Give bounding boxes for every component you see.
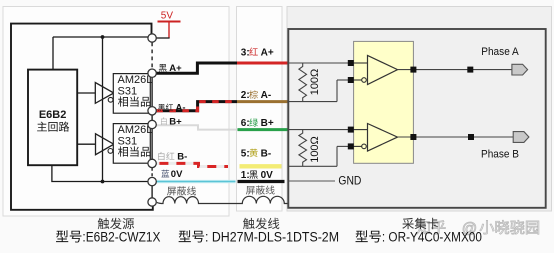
svg-text:0V: 0V [261, 170, 274, 181]
svg-text:100Ω: 100Ω [309, 136, 321, 163]
svg-text:3:: 3: [241, 47, 250, 58]
svg-text:B+: B+ [169, 116, 182, 127]
svg-text:: OR-Y4C0-XMX00: : OR-Y4C0-XMX00 [382, 230, 482, 245]
svg-text:B-: B- [177, 152, 187, 163]
svg-text:A-: A- [176, 102, 186, 113]
svg-text::E6B2-CWZ1X: :E6B2-CWZ1X [82, 230, 160, 245]
svg-text:B-: B- [261, 148, 272, 159]
svg-text:100Ω: 100Ω [309, 69, 321, 96]
svg-text:S31: S31 [118, 135, 138, 147]
svg-text:: DH27M-DLS-1DTS-2M: : DH27M-DLS-1DTS-2M [205, 230, 339, 245]
svg-text:Phase B: Phase B [481, 148, 519, 160]
svg-text:5V: 5V [161, 11, 174, 22]
svg-text:1:: 1: [241, 170, 250, 181]
svg-text:E6B2: E6B2 [39, 109, 67, 121]
svg-text:A+: A+ [261, 47, 274, 58]
svg-text:0V: 0V [171, 169, 183, 180]
svg-text:AM26L: AM26L [118, 124, 153, 136]
svg-text:AM26L: AM26L [118, 74, 153, 86]
svg-text:2:: 2: [241, 90, 250, 101]
svg-text:5:: 5: [241, 148, 250, 159]
svg-text:6:: 6: [241, 118, 250, 129]
svg-text:B+: B+ [261, 118, 274, 129]
svg-text:A+: A+ [169, 63, 182, 74]
svg-text:S31: S31 [118, 85, 138, 97]
svg-text:Phase A: Phase A [481, 46, 519, 58]
svg-text:A-: A- [261, 90, 272, 101]
svg-text:GND: GND [338, 174, 361, 188]
